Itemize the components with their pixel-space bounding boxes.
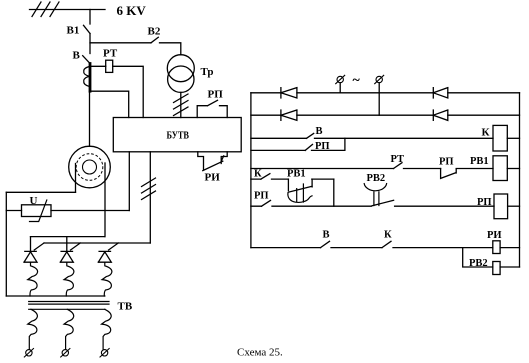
TB core lines bbox=[29, 302, 109, 305]
svg-text:РП: РП bbox=[254, 191, 269, 202]
diode D1 bbox=[281, 88, 297, 98]
wire RV1 coil to rail bbox=[507, 168, 519, 170]
wire sense up to BUTV bbox=[128, 152, 130, 211]
svg-text:Схема 25.: Схема 25. bbox=[237, 347, 283, 359]
varistor U body bbox=[22, 205, 52, 217]
relay coil RV1 bbox=[493, 156, 507, 181]
rowA wire bbox=[251, 178, 334, 180]
row5 wire bbox=[251, 247, 493, 249]
machine inner circle bbox=[83, 160, 97, 174]
wire rowA down to rowB bbox=[333, 179, 335, 206]
TB secondary winding 3 bbox=[102, 309, 112, 349]
gate bus bbox=[44, 242, 150, 244]
wire CT bottom to BUTV bbox=[91, 91, 129, 117]
svg-text:6 KV: 6 KV bbox=[117, 3, 147, 18]
svg-text:БУТВ: БУТВ bbox=[167, 130, 190, 142]
block BUTV bbox=[113, 118, 241, 152]
thyristor VS3 gate bbox=[109, 243, 119, 250]
svg-text:РТ: РТ bbox=[103, 48, 118, 60]
row3b wire RP branch bbox=[251, 138, 345, 150]
wire RT to BUTV bbox=[113, 66, 144, 117]
thyristor VS2 gate bbox=[71, 243, 81, 250]
time contact RV1 left lead bbox=[287, 179, 289, 191]
contact V row5 blade bbox=[321, 241, 330, 247]
wire left rail bbox=[5, 192, 7, 296]
wire RV2 coil to rail bbox=[500, 266, 519, 268]
svg-text:К: К bbox=[482, 127, 490, 139]
wire K coil to rail bbox=[507, 137, 519, 139]
rowB wire bbox=[251, 205, 494, 207]
diode D3 bbox=[281, 110, 297, 120]
wire RI coil to rail bbox=[500, 247, 519, 249]
thyristor VS3 bbox=[98, 251, 111, 262]
contact V row3 blade bbox=[307, 133, 314, 138]
relay coil RI bbox=[493, 241, 500, 254]
TB primary winding 3 bbox=[102, 262, 112, 296]
switch V blade bbox=[83, 56, 90, 64]
time contact RV1 piston bbox=[297, 184, 304, 202]
contact RP above BUTV bbox=[197, 100, 227, 117]
time contact RV1 cup bbox=[288, 193, 312, 203]
svg-text:В2: В2 bbox=[148, 26, 161, 38]
time contact RV2 blade bbox=[372, 200, 394, 206]
wire varistor to BUTV sense bbox=[51, 210, 129, 212]
terminal 3 bbox=[101, 350, 107, 356]
bus 6KV bbox=[30, 9, 106, 11]
machine commutator dashed circle bbox=[76, 154, 103, 181]
relay coil RP bbox=[494, 194, 508, 219]
wire CT to RT bbox=[91, 65, 106, 67]
svg-text:Тр: Тр bbox=[201, 66, 214, 78]
svg-text:К: К bbox=[384, 230, 392, 241]
AC terminal right bbox=[376, 76, 382, 82]
contact K rowA blade bbox=[261, 174, 270, 180]
time contact RV1 blade bbox=[289, 186, 312, 192]
svg-text:В: В bbox=[316, 126, 323, 137]
svg-text:РП: РП bbox=[477, 197, 492, 208]
svg-text:РВ1: РВ1 bbox=[470, 156, 489, 167]
svg-text:В: В bbox=[323, 230, 330, 241]
row1 wire bbox=[251, 92, 520, 94]
ladder right rail bbox=[519, 93, 521, 267]
svg-text:ТВ: ТВ bbox=[118, 301, 133, 313]
wire B2 to transformer bbox=[160, 43, 181, 55]
wire row5 branch down bbox=[463, 248, 493, 267]
wire terminal left to row1 bbox=[339, 83, 341, 93]
switch B2 blade bbox=[151, 37, 158, 43]
terminal 2 bbox=[62, 350, 68, 356]
contact RP row3b blade bbox=[305, 144, 312, 150]
wire rail to varistor bbox=[6, 210, 21, 212]
cathode return bus bbox=[6, 295, 105, 297]
svg-text:РВ1: РВ1 bbox=[287, 169, 306, 180]
svg-text:РВ2: РВ2 bbox=[367, 173, 386, 184]
relay coil K bbox=[493, 125, 507, 151]
diode D4 bbox=[433, 110, 448, 120]
relay RT coil bbox=[106, 60, 113, 72]
svg-text:РИ: РИ bbox=[205, 172, 221, 184]
svg-text:РВ2: РВ2 bbox=[469, 258, 488, 269]
wire bus to B1 bbox=[89, 10, 91, 25]
wire terminal right to row2 bbox=[378, 83, 380, 116]
wire Tr to BUTV with hatch bbox=[180, 92, 182, 117]
wire BUTV to gate bus with hatch bbox=[149, 152, 151, 243]
transformer Tr bbox=[167, 55, 194, 82]
wire RP coil to rail bbox=[508, 205, 520, 207]
terminal 1 bbox=[26, 350, 32, 356]
wire brush to left rail bbox=[6, 191, 75, 193]
contact K row5 blade bbox=[382, 241, 391, 247]
TB secondary bus bbox=[29, 308, 105, 310]
relay coil RV2 bbox=[493, 262, 500, 275]
row3 wire bbox=[251, 137, 493, 139]
TB secondary winding 2 bbox=[64, 309, 74, 349]
svg-text:К: К bbox=[254, 169, 262, 180]
row2 wire bbox=[251, 114, 520, 116]
thyristor VS1 bbox=[24, 237, 37, 263]
wire CT to machine bbox=[89, 91, 91, 146]
svg-text:В: В bbox=[73, 50, 81, 62]
CT winding bumps bbox=[84, 67, 90, 87]
ladder left rail bbox=[250, 93, 252, 248]
time contact RV2 piston bbox=[374, 192, 379, 206]
contact RP rowB blade bbox=[262, 200, 271, 206]
thyristor anode bus bbox=[31, 236, 105, 238]
svg-text:РИ: РИ bbox=[487, 230, 502, 241]
TB secondary winding 1 bbox=[28, 309, 38, 349]
contact RT row4 blade bbox=[394, 163, 403, 169]
wire tee to B2 bbox=[90, 42, 151, 44]
TB primary winding 2 bbox=[64, 262, 74, 296]
time contact RV2 cup bbox=[364, 184, 386, 191]
machine left brush wire bbox=[75, 164, 77, 193]
svg-text:РП: РП bbox=[439, 157, 454, 168]
row4 wire bbox=[251, 168, 493, 170]
machine M outer circle bbox=[69, 146, 111, 188]
machine right brush wire bbox=[104, 163, 106, 237]
contact RI below BUTV bbox=[198, 152, 227, 171]
svg-text:~: ~ bbox=[353, 73, 361, 88]
TB primary winding 1 bbox=[28, 262, 38, 296]
switch B1 blade bbox=[84, 25, 91, 33]
thyristor VS1 gate bbox=[34, 243, 44, 250]
svg-text:В1: В1 bbox=[67, 25, 80, 37]
bus hatch marks bbox=[32, 2, 59, 17]
wire B1 to tee bbox=[89, 34, 91, 54]
time contact RV1 right lead bbox=[311, 179, 313, 187]
svg-text:РП: РП bbox=[315, 141, 330, 152]
svg-text:РП: РП bbox=[208, 89, 224, 101]
varistor U slash bbox=[30, 200, 47, 222]
AC terminal left bbox=[337, 76, 343, 82]
contact RP row4 break bbox=[441, 169, 457, 179]
CT primary bold conductor bbox=[89, 64, 92, 92]
diode D2 bbox=[433, 88, 448, 98]
thyristor VS2 bbox=[60, 237, 73, 263]
